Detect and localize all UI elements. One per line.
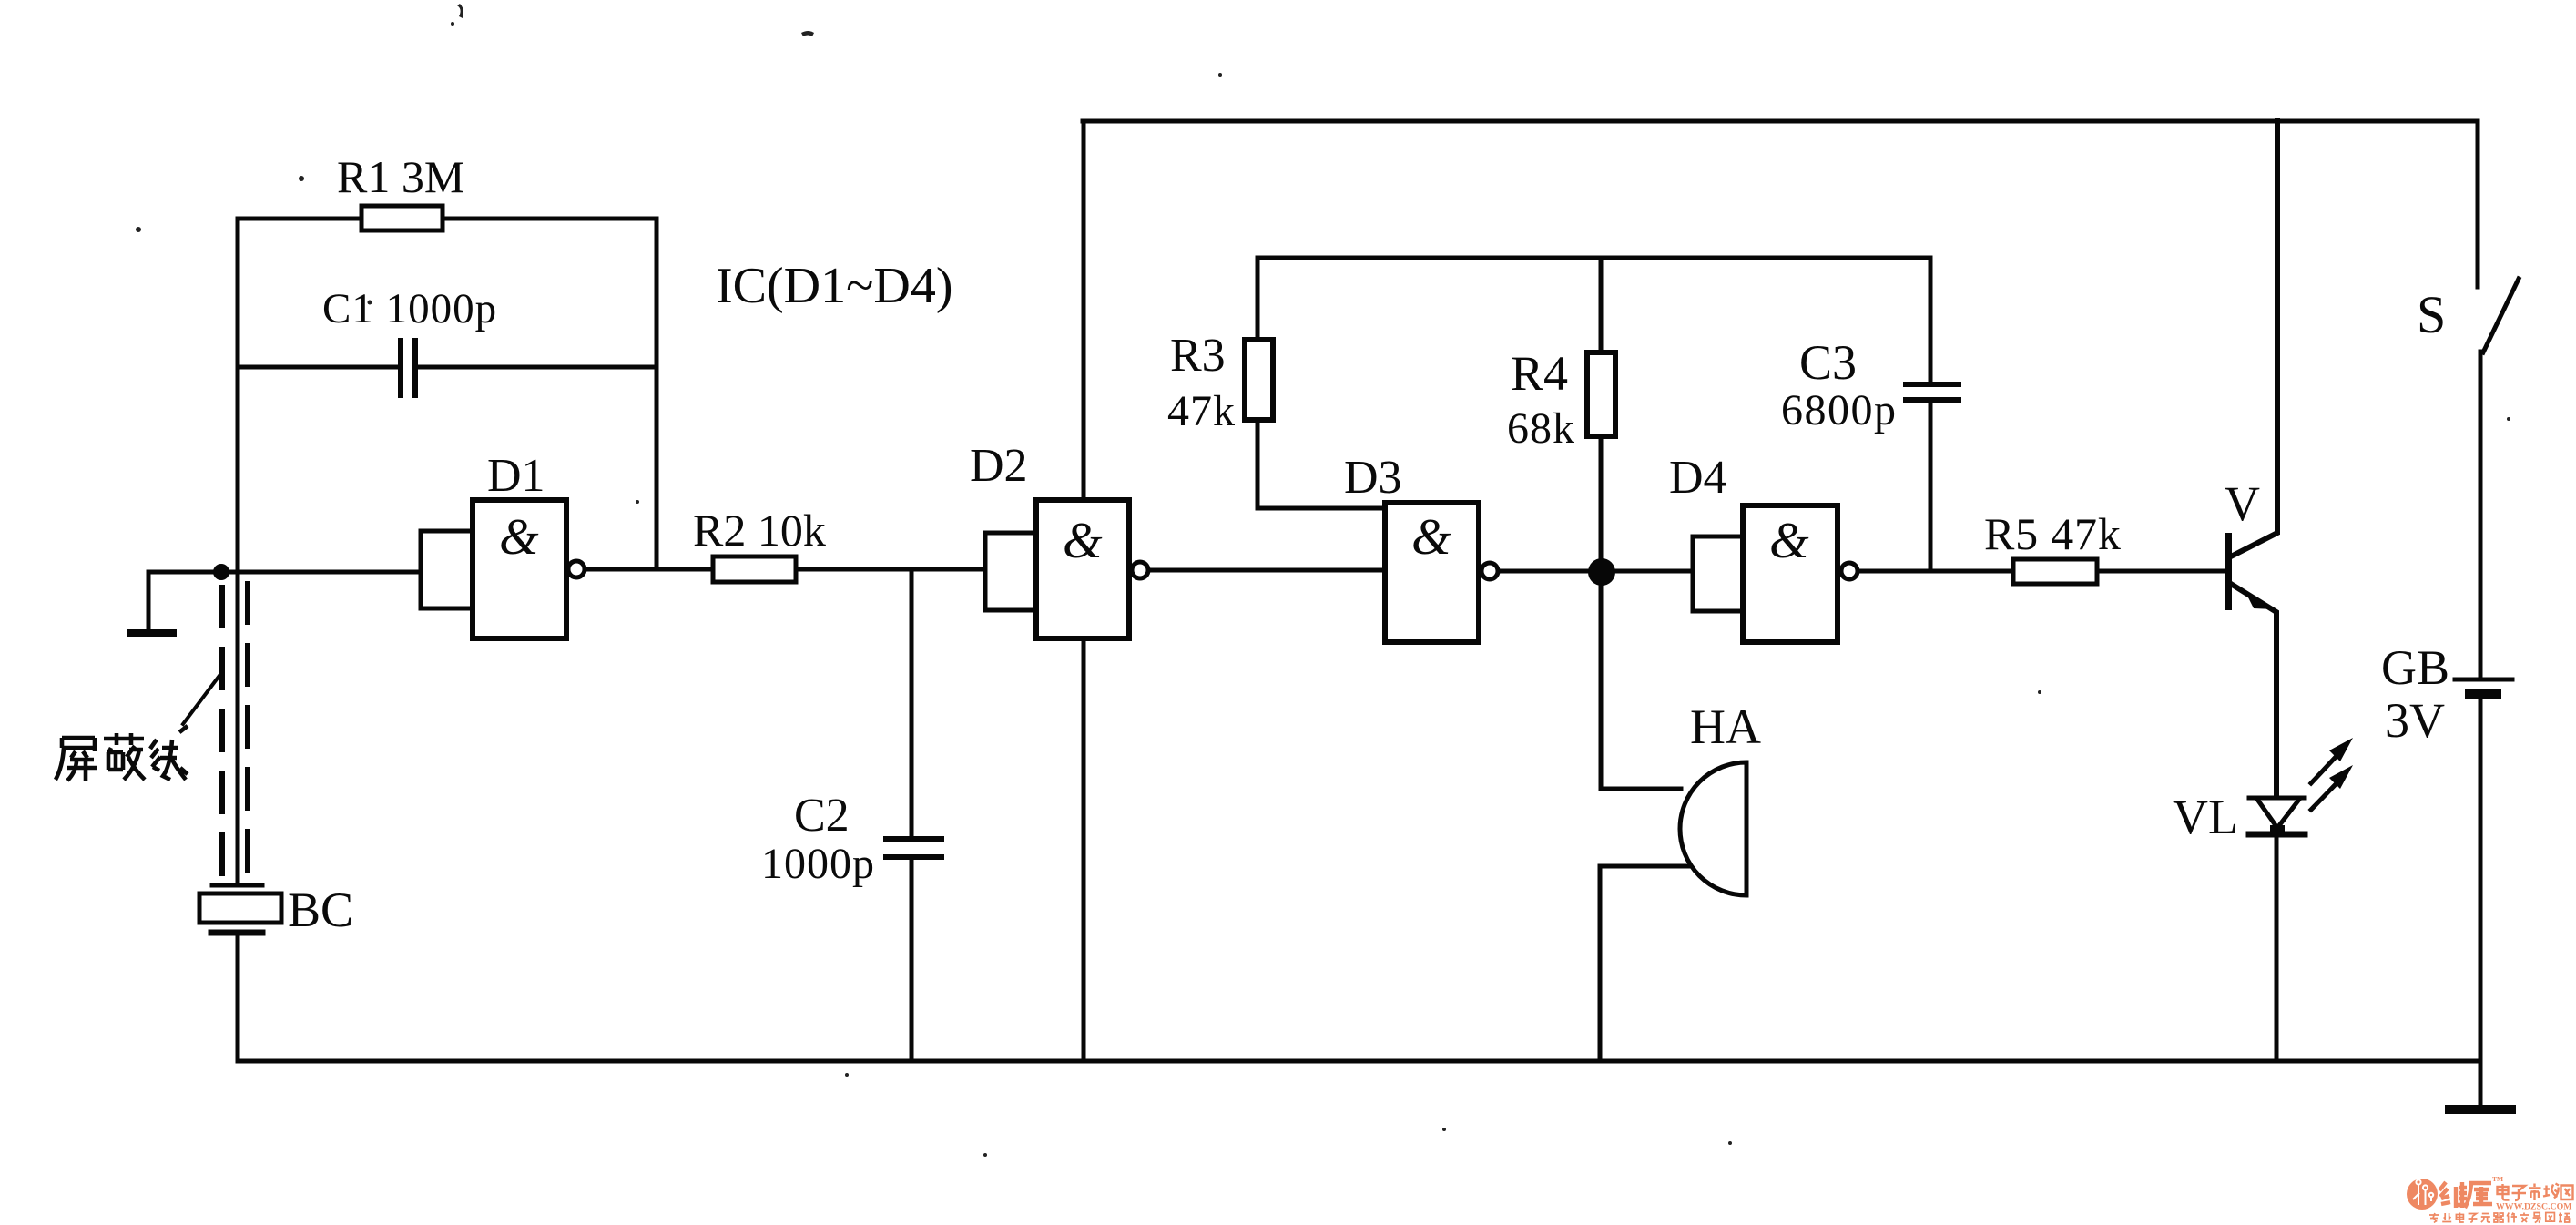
watermark logo circle [2407,1175,2573,1223]
wire: node down to buzzer HA [1601,572,1681,789]
LED light arrows [2311,756,2337,810]
wire: D1 output to R2 [585,567,713,572]
svg-text:3V: 3V [2385,693,2445,748]
gate D1 output bubble [568,561,585,577]
shielded cable dashed screen left [219,587,225,880]
svg-text:1000p: 1000p [761,840,875,888]
svg-text:R3: R3 [1170,330,1226,382]
wire: R2 to D2 input [796,567,985,572]
svg-text:C3: C3 [1799,335,1857,390]
svg-text:D1: D1 [487,450,545,502]
svg-text:BC: BC [288,883,353,937]
wire: R3 branch [1257,258,1385,508]
svg-text:&: & [499,509,539,566]
wire: bottom ground rail [238,1059,2480,1064]
gate D2 input stub [985,533,1036,610]
ground: battery negative ground bar [2449,1105,2511,1114]
wire: node to D4 input [1602,569,1693,574]
wire: R1/C1 left vertical + shielded center conductor down to BC [236,219,240,883]
svg-text:TM: TM [2492,1175,2503,1183]
gate D4 output bubble [1841,563,1858,579]
shield end ticks [212,883,262,888]
transistor V emitter with arrow [2231,584,2276,796]
svg-text:HA: HA [1690,699,1761,754]
LED VL triangle [2249,798,2305,828]
resistor R1 [361,206,443,230]
transistor V collector [2231,121,2277,556]
wire: D4 output to R5 [1858,569,2013,574]
wire: BC to bottom rail [236,936,240,1061]
svg-text:S: S [2417,285,2446,344]
wire: input node to D1 [221,570,421,575]
svg-text:68k: 68k [1507,404,1575,453]
sensor BC bottom plate [211,930,262,936]
label pointer line for shield [183,673,221,724]
wire: D2 output to D3 [1149,568,1385,573]
wire: LED to bottom rail [2275,833,2279,1061]
svg-text:R2 10k: R2 10k [693,505,826,556]
node: junction dot D3 out / R4 / HA / D4 in [1588,558,1615,586]
svg-text:VL: VL [2173,790,2238,844]
node: junction dot at D1 input / shield [213,564,229,580]
watermark 电子市场网 small glyphs [2498,1184,2573,1201]
wire: C3 branch [1929,258,1933,571]
svg-text:6800p: 6800p [1781,386,1898,434]
transistor V base bar [2225,536,2232,607]
gate D3 output bubble [1481,563,1498,579]
svg-text:C2: C2 [794,790,850,842]
svg-text:C1 1000p: C1 1000p [322,285,497,332]
wire: D2 power rail vertical [1082,121,1086,1061]
svg-text:&: & [1411,509,1451,566]
shielded cable dashed screen right [245,584,250,880]
svg-text:D3: D3 [1344,452,1402,504]
gate D4 input stub [1693,536,1743,611]
svg-text:WWW.DZSC.COM: WWW.DZSC.COM [2496,1202,2571,1212]
LED VL cathode bar [2249,832,2305,838]
svg-text:47k: 47k [1167,387,1236,435]
switch S top lead [2476,121,2480,287]
switch S blade [2483,279,2519,352]
svg-text:R5 47k: R5 47k [1984,508,2122,559]
svg-text:D4: D4 [1669,452,1727,504]
ground [130,629,173,637]
label 屏蔽线 (shielded wire), drawn strokes [56,726,188,781]
gate D2 body [1036,500,1129,638]
sensor BC body [199,893,281,923]
watermark 维库 big glyphs [2439,1182,2492,1208]
gate D2 output bubble [1132,562,1148,578]
svg-text:GB: GB [2381,640,2449,695]
buzzer HA shell [1680,762,1746,895]
resistor R4 [1587,352,1615,436]
battery GB negative plate [2469,689,2497,699]
wire: R1 top branch [238,217,657,221]
wire: ground lead to input node [148,572,221,630]
svg-text:R4: R4 [1511,346,1568,401]
wire: R4 branch vertical [1599,258,1604,571]
wire: inner feedback rail [1257,256,1930,260]
gate D1 input stub [421,531,473,608]
resistor R5 [2013,559,2097,584]
wire: D3 output to node [1498,569,1601,574]
capacitor C3 [1906,384,1959,400]
svg-text:&: & [1063,513,1103,569]
capacitor C1 [401,341,415,395]
svg-text:V: V [2225,476,2260,531]
wire: C1 branch [238,365,657,370]
battery GB positive plate [2455,678,2512,682]
wire: HA lower lead [1600,866,1689,1061]
wire: R5 to transistor base [2097,569,2225,574]
resistor R2 [713,556,796,582]
wire: C2 branch down [910,569,914,1061]
wire: switch to battery [2479,352,2483,678]
svg-text:D2: D2 [970,440,1028,492]
wire: R1/C1 right vertical to D1 output [655,219,659,569]
gate D4 body [1743,505,1838,642]
svg-text:IC(D1~D4): IC(D1~D4) [716,258,952,314]
watermark bottom slogan glyphs [2429,1213,2570,1223]
wire: main top supply rail [1083,119,2478,124]
gate D1 body [473,500,566,638]
svg-text:R1 3M: R1 3M [337,151,464,202]
resistor R3 [1245,340,1273,420]
wire: battery to ground [2479,699,2483,1106]
capacitor C2 [886,839,942,857]
svg-text:&: & [1769,513,1809,569]
gate D3 body [1385,503,1479,642]
